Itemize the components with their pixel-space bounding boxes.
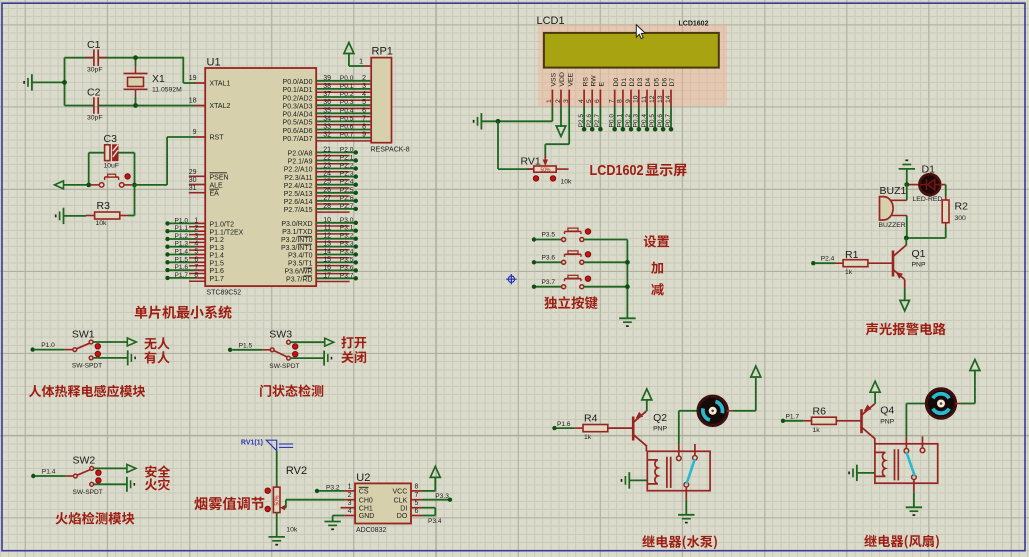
wire VSS to ground [551,107,553,122]
svg-text:D2: D2 [629,78,636,87]
net P1.7 [781,419,785,423]
svg-text:P0.5/AD5: P0.5/AD5 [283,120,313,127]
wire [904,288,906,301]
wire [333,515,345,517]
svg-text:35: 35 [323,107,331,114]
switch SW3 SW-SPDT [270,348,274,352]
pin 25 P2.4/A12 net P2.4 [316,184,356,186]
svg-text:P3.4: P3.4 [428,518,442,525]
overline WR [303,267,312,269]
svg-text:12: 12 [323,233,331,240]
power terminal [970,360,980,371]
svg-text:P2.4: P2.4 [340,179,354,186]
wire [94,467,127,469]
svg-text:P0.4: P0.4 [641,114,648,128]
svg-text:P3.2/INT0: P3.2/INT0 [281,237,313,244]
red state dot [95,344,100,349]
pin 33 P0.6/AD6 net P0.6 wire to RP1 pin 8 [316,129,371,131]
svg-text:SW1: SW1 [72,328,95,340]
pin 29 PSEN [189,175,205,177]
ground coil side [628,472,630,488]
capacitor C2 [93,97,95,114]
svg-text:P2.7: P2.7 [340,203,354,210]
wire [135,184,168,186]
pin 35 P0.4/AD4 net P0.4 wire to RP1 pin 6 [316,112,371,114]
svg-text:LCD1602: LCD1602 [679,20,709,27]
svg-text:DO: DO [397,513,408,520]
svg-text:3: 3 [563,99,570,103]
svg-text:P2.2/A10: P2.2/A10 [284,167,313,174]
wire [94,483,127,485]
node P0.2 [629,127,634,132]
red state dot [95,351,100,356]
resistor R3 10k [95,212,120,219]
svg-text:P0.1/AD1: P0.1/AD1 [283,87,313,94]
wire [32,81,65,83]
svg-text:P1.6: P1.6 [557,421,571,428]
svg-text:P0.0: P0.0 [340,75,354,82]
svg-text:P2.5/A13: P2.5/A13 [284,191,313,198]
switch SW2 SW-SPDT [74,474,78,478]
svg-text:7: 7 [415,492,419,499]
wire button bus [626,240,628,319]
svg-text:5: 5 [362,99,366,106]
svg-text:P1.2: P1.2 [175,233,189,240]
pin 17 P3.7/RD net P3.7 [316,277,356,279]
pin 2 P1.1/T2EX net P1.1 [165,229,169,233]
svg-text:P3.5: P3.5 [542,232,556,239]
wire [638,107,640,130]
wire [65,57,94,59]
svg-text:RESPACK-8: RESPACK-8 [371,147,410,154]
ground [619,317,635,319]
svg-text:P1.1: P1.1 [175,225,189,232]
svg-text:P2.6: P2.6 [586,114,593,128]
relay coil [875,452,886,476]
svg-text:D7: D7 [669,78,676,87]
pin 14 P3.4/T0 net P3.4 [316,254,356,256]
svg-text:4: 4 [194,241,198,248]
svg-text:9: 9 [193,129,197,136]
svg-text:9: 9 [362,132,366,139]
potentiometer RV2 10k [273,487,280,512]
svg-text:3: 3 [362,83,366,90]
label: safe [145,465,170,477]
ground [323,351,325,366]
svg-text:GND: GND [359,513,375,520]
svg-text:8: 8 [194,272,198,279]
svg-text:5: 5 [194,249,198,256]
svg-text:P2.6/A14: P2.6/A14 [284,199,313,206]
svg-text:P2.1/A9: P2.1/A9 [288,159,313,166]
wire [874,439,876,444]
svg-text:D5: D5 [653,78,660,87]
svg-text:STC89C52: STC89C52 [207,290,242,297]
red state dot [585,229,590,234]
wire [599,107,601,130]
svg-text:P3.3: P3.3 [340,241,354,248]
svg-text:2: 2 [362,75,366,82]
relay contacts [677,456,682,461]
wire motor feed [678,411,680,445]
red state dot [265,506,270,511]
pin 23 P2.2/A10 net P2.2 [316,168,356,170]
svg-text:P1.7: P1.7 [210,276,225,283]
svg-text:RV2: RV2 [286,465,307,477]
relay coil [647,460,658,484]
svg-text:ALE: ALE [210,183,224,190]
svg-text:6: 6 [194,256,198,263]
svg-text:P2.5: P2.5 [340,187,354,194]
svg-text:1k: 1k [584,434,592,441]
transistor PNP [860,409,863,433]
node bus junction [625,260,630,265]
svg-text:U2: U2 [356,472,370,484]
svg-text:EA: EA [210,191,220,198]
svg-text:P3.7/RD: P3.7/RD [286,277,312,284]
svg-text:XTAL1: XTAL1 [210,81,231,88]
svg-text:R6: R6 [813,405,827,417]
svg-text:D3: D3 [637,78,644,87]
svg-text:1: 1 [546,99,553,103]
svg-text:SW3: SW3 [269,329,292,341]
adc U2 ADC0832 [355,483,411,523]
svg-text:22: 22 [323,155,331,162]
pin 3 P1.2 net P1.2 [165,237,169,241]
svg-text:23: 23 [323,163,331,170]
wire [622,107,624,130]
svg-text:50%: 50% [541,168,552,174]
capacitor C3 10uF [105,145,110,161]
wire [662,107,664,130]
pin 5 P1.4 net P1.4 [165,252,169,256]
pin 34 P0.5/AD5 net P0.5 wire to RP1 pin 7 [316,120,371,122]
svg-text:E: E [599,82,606,87]
label: relay fan [864,535,939,549]
ground [324,521,340,523]
svg-text:SW2: SW2 [73,455,96,467]
svg-text:9: 9 [625,99,632,103]
wire [291,357,325,359]
svg-text:PSEN: PSEN [210,174,229,181]
svg-text:7: 7 [362,115,366,122]
svg-text:1: 1 [194,217,198,224]
wire [945,227,947,238]
svg-text:18: 18 [189,98,197,105]
svg-text:P0.3/AD3: P0.3/AD3 [283,104,313,111]
wire [497,121,499,169]
svg-text:P2.2: P2.2 [340,163,354,170]
svg-text:32: 32 [323,132,331,139]
pin 19 XTAL1 [195,82,205,84]
ground [127,350,129,365]
motor [698,396,727,425]
svg-text:RST: RST [210,135,225,142]
pin 10 P3.0/RXD net P3.0 [316,222,356,224]
svg-text:PNP: PNP [912,262,926,269]
svg-text:P1.1/T2EX: P1.1/T2EX [210,229,244,236]
svg-text:VDD: VDD [559,72,566,86]
svg-text:P3.2: P3.2 [340,233,354,240]
svg-text:CH1: CH1 [359,505,373,512]
svg-text:P1.5: P1.5 [175,256,189,263]
label: minus [651,283,664,295]
svg-text:P1.0: P1.0 [175,217,189,224]
power terminal [430,466,440,477]
label: set [644,235,669,247]
svg-text:Q4: Q4 [880,405,894,417]
svg-text:P0.6: P0.6 [657,114,664,128]
pin 8 P1.7 net P1.7 [165,276,169,280]
pin 31 EA [189,192,205,194]
wire [645,446,647,451]
red state dot [293,352,298,357]
svg-text:2: 2 [348,492,352,499]
wire DI-DO tie [422,507,435,509]
wire [654,107,656,130]
wire [64,215,87,217]
svg-text:1: 1 [348,483,352,490]
svg-text:8: 8 [617,99,624,103]
svg-text:SW-SPDT: SW-SPDT [73,489,103,496]
svg-text:15: 15 [323,256,331,263]
wire motor feed [905,404,907,437]
pin 15 P3.5/T1 net P3.5 [316,261,356,263]
svg-text:P0.3: P0.3 [340,99,354,106]
svg-text:ADC0832: ADC0832 [356,527,386,534]
node P0.7 [669,127,674,132]
wire [630,107,632,130]
pin 39 P0.0/AD0 net P0.0 wire to RP1 pin 2 [316,80,371,82]
svg-text:D1: D1 [621,78,628,87]
net P1.0 [31,347,35,351]
svg-text:C1: C1 [87,39,101,51]
node crystal bottom junction [133,103,138,108]
wire [93,357,128,359]
svg-text:P2.5: P2.5 [578,114,585,128]
svg-text:P1.4: P1.4 [42,469,56,476]
svg-text:5: 5 [586,99,593,103]
svg-text:P3.7: P3.7 [542,279,556,286]
node bus junction [625,284,630,289]
svg-text:3: 3 [348,500,352,507]
power terminal down arrow VDD [560,107,562,128]
pin 27 P2.6/A14 net P2.6 [316,200,356,202]
svg-text:6: 6 [362,107,366,114]
red state dot [96,478,101,483]
label: fire [145,478,170,490]
svg-text:10k: 10k [96,220,108,227]
push button P3.5 [532,237,536,241]
svg-text:16: 16 [323,264,331,271]
label: MCU minimal system [135,305,232,318]
svg-text:LED-RED: LED-RED [913,196,943,203]
label: somebody [144,351,169,363]
svg-text:CH0: CH0 [359,497,373,504]
svg-text:10k: 10k [561,179,573,186]
svg-text:21: 21 [323,146,331,153]
wire [584,239,628,241]
svg-text:1k: 1k [845,269,853,276]
svg-text:38: 38 [323,83,331,90]
push button P3.6 [532,260,536,264]
svg-text:26: 26 [323,187,331,194]
svg-text:12: 12 [649,95,656,103]
buzzer BUZ1 [880,197,894,220]
svg-text:33: 33 [323,124,331,131]
svg-text:SW-SPDT: SW-SPDT [72,363,102,370]
wire [584,286,628,288]
svg-text:34: 34 [323,115,331,122]
node alarm bottom junction [904,236,909,241]
svg-text:D0: D0 [613,78,620,87]
svg-text:7: 7 [194,264,198,271]
wire [670,107,672,130]
potentiometer RV1 10k [544,156,546,163]
resistor R2 300 [942,200,949,223]
wire [591,107,593,130]
pin 22 P2.1/A9 net P2.1 [316,160,356,162]
svg-text:11.0592M: 11.0592M [152,87,182,94]
relay box [875,444,938,483]
pin 30 ALE [189,184,205,186]
resistor R1 1k [843,260,868,267]
svg-text:P3.4: P3.4 [340,249,354,256]
svg-text:300: 300 [955,215,967,222]
svg-text:8: 8 [415,483,419,490]
pin 16 P3.6/WR net P3.6 [316,269,356,271]
svg-text:P0.1: P0.1 [617,114,624,128]
svg-text:P3.5/T1: P3.5/T1 [288,261,313,268]
svg-text:R2: R2 [955,201,969,213]
svg-text:P0.1: P0.1 [340,83,354,90]
svg-text:P2.1: P2.1 [340,155,354,162]
svg-text:RW: RW [590,75,597,87]
pin 2 CH0 [344,499,355,501]
wire [93,341,127,343]
svg-text:P2.7: P2.7 [594,114,601,128]
wire [89,152,105,154]
svg-text:DI: DI [400,505,407,512]
microcontroller U1 STC89C52 [205,68,316,286]
label: plus [651,262,663,274]
ground [269,536,285,538]
net P2.4 [811,261,815,265]
svg-text:11: 11 [641,96,648,103]
svg-text:17: 17 [323,272,331,279]
svg-text:P3.6/WR: P3.6/WR [284,269,312,276]
pin 36 P0.3/AD3 net P0.3 wire to RP1 pin 5 [316,104,371,106]
svg-text:2: 2 [555,99,562,103]
origin marker [506,274,516,284]
svg-text:BUZZER: BUZZER [879,222,906,229]
wire [614,107,616,130]
svg-text:P0.0: P0.0 [609,114,616,128]
svg-text:P3.0/RXD: P3.0/RXD [281,221,312,228]
pin 7 P1.6 net P1.6 [165,268,169,272]
label: door state detect [260,385,323,397]
node P0.3 [637,127,642,132]
overline RD [304,275,313,277]
resistor R6 1k [812,417,837,424]
svg-text:R3: R3 [97,200,111,212]
svg-text:36: 36 [323,99,331,106]
svg-text:P1.3: P1.3 [175,241,189,248]
pin 3 CH1 [341,507,356,509]
wire [857,472,875,474]
capacitor C1 [93,50,95,67]
svg-text:BUZ1: BUZ1 [880,185,907,197]
svg-text:P1.5: P1.5 [210,260,225,267]
svg-text:30: 30 [189,177,197,184]
label: nobody [144,337,169,349]
node alarm top junction [904,182,909,187]
svg-text:D4: D4 [645,78,652,87]
pin 1 P1.0/T2 net P1.0 [165,221,169,225]
svg-text:P0.5: P0.5 [649,114,656,128]
ground [31,74,33,90]
svg-text:R4: R4 [584,413,598,425]
svg-text:10: 10 [323,217,331,224]
svg-text:PNP: PNP [880,419,894,426]
svg-text:P1.4: P1.4 [210,253,225,260]
mouse cursor [636,25,645,39]
svg-text:P3.4/T0: P3.4/T0 [288,253,313,260]
svg-text:P3.7: P3.7 [340,272,354,279]
svg-text:30pF: 30pF [87,67,103,74]
pin 6 P1.5 net P1.5 [165,260,169,264]
wire [785,420,804,422]
svg-text:P3.1/TXD: P3.1/TXD [282,229,312,236]
net P1.4 [31,474,35,478]
label: closed [341,351,366,363]
power terminal [127,464,136,472]
svg-text:P0.5: P0.5 [340,115,354,122]
net P1.6 [552,426,556,430]
node crystal top junction [133,55,138,60]
svg-text:5: 5 [415,500,419,507]
svg-text:Q2: Q2 [653,412,667,424]
red state dot [533,176,538,181]
svg-text:P1.4: P1.4 [175,249,189,256]
svg-text:P1.6: P1.6 [175,264,189,271]
pin 11 P3.1/TXD net P3.1 [316,230,356,232]
pin 8 VCC [411,490,422,492]
pin 12 P3.2/INT0 net P3.2 [316,238,356,240]
pin 1 RP1 [364,65,372,67]
svg-text:RV1: RV1 [521,156,541,168]
svg-text:4: 4 [348,508,352,515]
svg-text:30pF: 30pF [87,115,103,122]
svg-text:P3.5: P3.5 [340,256,354,263]
svg-text:2: 2 [194,225,198,232]
pin 4 P1.3 net P1.3 [165,245,169,249]
power terminal [751,366,761,377]
svg-text:P2.0/A8: P2.0/A8 [288,151,313,158]
svg-text:SW-SPDT: SW-SPDT [269,363,299,370]
red state dot [96,470,101,475]
node P0.5 [653,127,658,132]
svg-text:P1.3: P1.3 [210,245,225,252]
svg-text:14: 14 [665,95,672,103]
wire [583,107,585,130]
svg-text:P2.4: P2.4 [821,256,835,263]
crystal X1 [124,73,148,75]
svg-text:10uF: 10uF [104,162,120,169]
wire [276,451,278,487]
svg-text:P1.5: P1.5 [239,342,253,349]
wire relay to ground [685,500,687,515]
